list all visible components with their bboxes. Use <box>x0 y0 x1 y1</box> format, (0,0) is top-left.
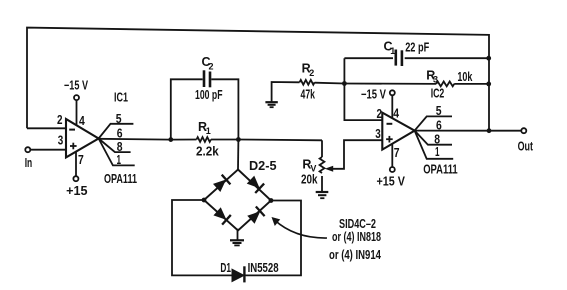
svg-text:2: 2 <box>57 112 63 127</box>
svg-text:+15: +15 <box>66 184 87 198</box>
svg-text:4: 4 <box>393 105 399 120</box>
svg-text:2: 2 <box>209 62 214 72</box>
svg-text:IN5528: IN5528 <box>248 261 279 275</box>
svg-text:D1: D1 <box>220 261 231 275</box>
svg-text:2: 2 <box>377 106 383 121</box>
svg-text:4: 4 <box>79 113 85 128</box>
svg-text:100 pF: 100 pF <box>195 88 223 102</box>
svg-text:2: 2 <box>309 68 314 78</box>
svg-text:22 pF: 22 pF <box>405 41 429 55</box>
svg-text:−15 V: −15 V <box>64 79 88 93</box>
svg-text:Out: Out <box>518 140 534 154</box>
svg-text:or (4) IN818: or (4) IN818 <box>332 230 381 244</box>
svg-text:2.2k: 2.2k <box>196 145 219 159</box>
svg-text:−15 V: −15 V <box>361 88 387 102</box>
svg-text:1: 1 <box>390 46 395 56</box>
svg-text:1: 1 <box>117 152 122 167</box>
svg-text:6: 6 <box>436 118 442 133</box>
svg-text:7: 7 <box>394 145 400 160</box>
svg-text:OPA111: OPA111 <box>104 172 137 186</box>
svg-text:IC1: IC1 <box>114 91 128 105</box>
svg-text:V: V <box>310 164 316 174</box>
svg-text:3: 3 <box>375 126 381 141</box>
svg-text:+15 V: +15 V <box>377 175 406 189</box>
svg-text:In: In <box>25 156 33 170</box>
svg-text:1: 1 <box>435 144 440 159</box>
svg-text:1: 1 <box>206 126 211 136</box>
svg-text:47k: 47k <box>301 88 316 102</box>
svg-text:or (4) IN914: or (4) IN914 <box>329 248 381 262</box>
svg-text:10k: 10k <box>457 70 472 84</box>
svg-text:OPA111: OPA111 <box>423 163 458 177</box>
svg-text:5: 5 <box>116 111 122 126</box>
svg-text:3: 3 <box>58 133 64 148</box>
svg-text:SID4C–2: SID4C–2 <box>339 217 376 231</box>
svg-text:20k: 20k <box>301 173 318 187</box>
svg-text:3: 3 <box>433 75 438 85</box>
svg-text:5: 5 <box>436 103 442 118</box>
svg-text:IC2: IC2 <box>431 87 445 101</box>
svg-text:D2-5: D2-5 <box>249 159 277 173</box>
svg-text:7: 7 <box>78 152 84 167</box>
